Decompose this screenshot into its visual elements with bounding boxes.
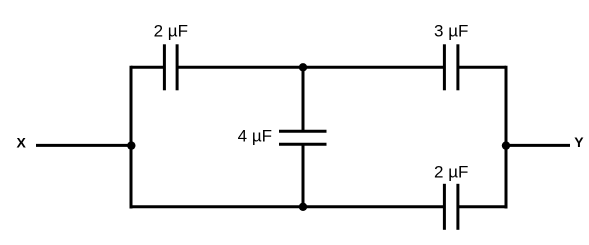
label value 2 uF (bottom right) [434,162,468,181]
wire right rail [505,66,508,209]
label value 3 uF [434,22,468,41]
wire Y lead [506,144,570,147]
capacitor C2 3uF plates [444,44,458,90]
wire top segment left rail to C1 [131,66,164,69]
label value 2 uF (top left) [154,22,188,41]
wire bottom segment left rail to bottom node [131,205,303,208]
wire top segment middle node to C2 [303,66,444,69]
label value 4 uF [238,126,272,145]
wire left rail [130,66,133,209]
capacitor C3 4uF plates [279,131,327,144]
node right junction [502,141,510,149]
svg-text:4 µF: 4 µF [238,126,272,145]
wire top segment C2 to right rail [459,66,507,69]
terminal label X [17,135,27,151]
svg-text:2 µF: 2 µF [434,162,468,181]
node top middle junction [299,63,307,71]
svg-text:2 µF: 2 µF [154,22,188,41]
node bottom middle junction [299,203,307,211]
svg-text:3 µF: 3 µF [434,22,468,41]
wire middle branch upper [302,67,305,131]
wire X lead [36,144,131,147]
wire middle branch lower [302,144,305,207]
svg-text:Y: Y [574,134,584,150]
terminal label Y [574,134,584,150]
node left junction [127,141,135,149]
wire bottom segment bottom node to C4 [303,205,444,208]
wire bottom segment C4 to right rail [459,205,507,208]
capacitor C4 2uF plates [444,184,458,230]
capacitor C1 2uF plates [164,44,177,90]
svg-text:X: X [17,135,27,151]
wire top segment C1 to middle node [178,66,303,69]
